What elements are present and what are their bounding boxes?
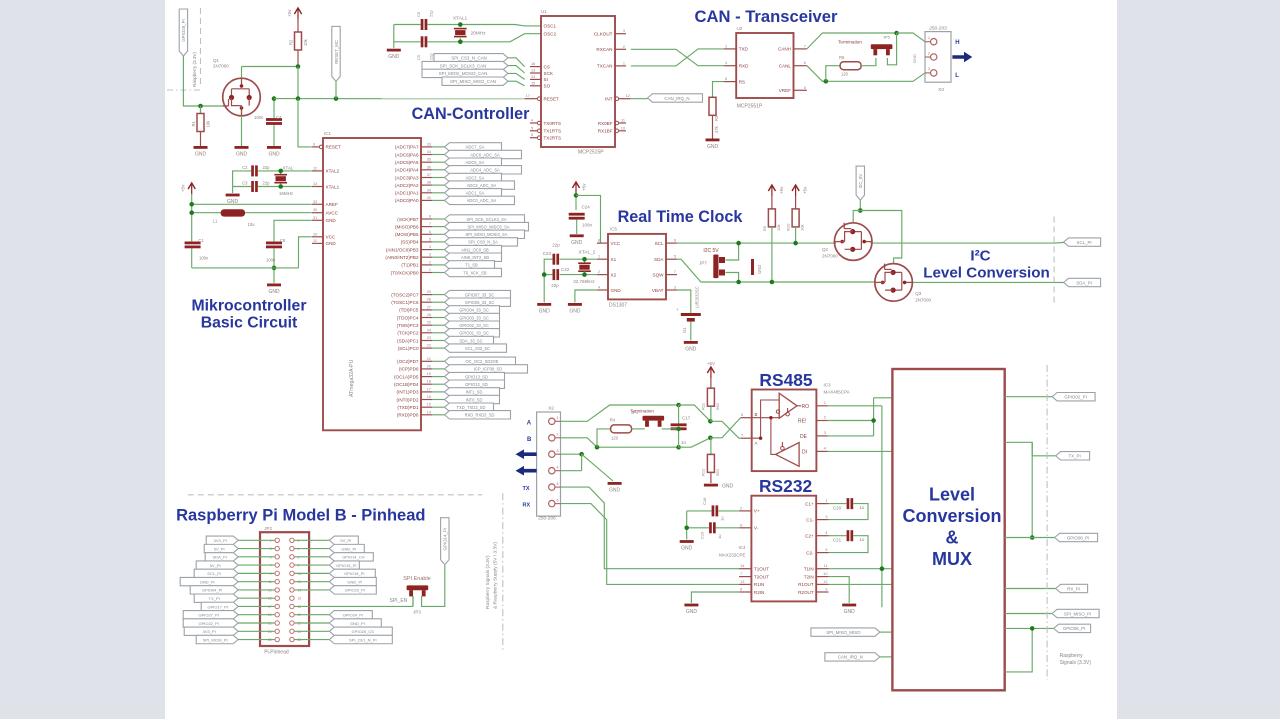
svg-text:(TDI)PC5: (TDI)PC5 (399, 308, 419, 313)
IC1 pin VCC (312, 236, 323, 238)
svg-text:+5v: +5v (181, 184, 186, 192)
svg-text:R1IN: R1IN (754, 582, 764, 587)
svg-text:T2IN: T2IN (804, 574, 814, 579)
wire from right pin (295, 581, 330, 583)
svg-text:SPI_MOSI_MOSI3_CAN: SPI_MOSI_MOSI3_CAN (439, 71, 488, 76)
svg-text:ADC7_SA: ADC7_SA (466, 145, 485, 150)
svg-text:(T1)PB1: (T1)PB1 (401, 263, 419, 268)
wire pin to net flag ADC3_SA (432, 177, 445, 179)
svg-text:5V_PI: 5V_PI (210, 563, 221, 568)
IC1 pin (OC1A)PD5 (421, 376, 432, 378)
svg-text:Q1: Q1 (213, 58, 220, 63)
svg-text:24: 24 (427, 328, 431, 332)
resistor R12 560 bias down (710, 438, 712, 455)
svg-text:RS: RS (739, 79, 745, 84)
IC1 pin RESET (312, 146, 319, 148)
wire to SO (508, 81, 525, 86)
svg-text:&: & (946, 528, 959, 548)
svg-text:XTAL_2: XTAL_2 (579, 250, 596, 256)
svg-text:120: 120 (611, 436, 619, 441)
wire to left pin (238, 564, 274, 566)
IC1 pin (MISO)PB6 (421, 226, 432, 228)
svg-text:R4: R4 (610, 418, 616, 423)
svg-text:IC4: IC4 (738, 545, 746, 550)
wire SDA diagonal and long (677, 259, 875, 282)
wire pin to net flag GPIO13_SD (432, 376, 445, 378)
svg-text:SPI_MOSI_PI: SPI_MOSI_PI (203, 637, 228, 642)
svg-text:16: 16 (298, 597, 302, 601)
net flag SPI_CS3_N_CAN (434, 54, 508, 62)
svg-text:7: 7 (804, 44, 806, 48)
IC1 pin (TOSC1)PC6 (421, 301, 432, 303)
IC1 pin (TDO)PC4 (421, 317, 432, 319)
wire SCL long (677, 242, 836, 244)
ground under R12 (704, 484, 718, 487)
svg-text:Raspberry Pi Model B - Pinhead: Raspberry Pi Model B - Pinhead (176, 507, 425, 525)
wire pin to net flag ADC4_ADC_SA (432, 169, 445, 171)
svg-text:C22: C22 (561, 267, 570, 272)
svg-text:10k: 10k (800, 225, 805, 231)
svg-text:47k: 47k (714, 125, 719, 133)
svg-text:SCL_PI: SCL_PI (1077, 240, 1092, 245)
svg-text:SPI_MOSI_MOSI3_SA: SPI_MOSI_MOSI3_SA (465, 232, 507, 237)
svg-text:C24: C24 (582, 205, 591, 210)
IC1 pin (SCL)PC0 (421, 347, 432, 349)
wire OSC1 net (394, 24, 421, 26)
svg-text:15: 15 (531, 81, 535, 85)
capacitor C20 1u loop (829, 503, 847, 505)
svg-text:MCP2515P: MCP2515P (578, 150, 604, 156)
svg-text:SPI_SCK_SCLK3_SA: SPI_SCK_SCLK3_SA (466, 217, 507, 222)
U1 pin CS (530, 66, 541, 68)
IC4 pin T1OUT (739, 568, 751, 570)
pin header JP2 box (260, 532, 309, 646)
svg-text:ADC0_ADC_SA: ADC0_ADC_SA (467, 198, 497, 203)
U1 pin SI (530, 78, 541, 80)
wire MUX to RX_PI (1005, 588, 1056, 590)
wire pin to net flag SPI_MISO_MISO3_SA (432, 226, 445, 228)
svg-text:16: 16 (531, 62, 535, 66)
svg-text:CAN_IRQ_N: CAN_IRQ_N (838, 655, 863, 660)
svg-text:GND: GND (539, 309, 551, 315)
wire pin to net flag T1_SB (432, 264, 445, 266)
svg-text:T1IN: T1IN (804, 567, 814, 572)
svg-text:C3: C3 (242, 181, 248, 186)
ground X2 pins 3-4 (608, 482, 622, 485)
svg-text:(T0/XCK)PB0: (T0/XCK)PB0 (391, 270, 419, 275)
net flag GPIO13_SD (445, 372, 505, 380)
svg-text:14: 14 (427, 410, 431, 414)
wire R1 to GND (200, 132, 202, 147)
svg-text:Q2: Q2 (822, 247, 829, 252)
svg-text:+: + (676, 307, 679, 312)
IC4 pin C1- (816, 519, 828, 521)
resistor R2 10k (297, 19, 299, 32)
svg-text:3V3_PI: 3V3_PI (214, 538, 227, 543)
svg-text:29: 29 (427, 290, 431, 294)
svg-text:2: 2 (557, 433, 559, 437)
net flag GPIO01_33_SC (445, 329, 500, 337)
ground under T2IN (842, 604, 856, 607)
svg-text:GND: GND (388, 54, 400, 60)
wire pin to net flag ADC0_ADC_SA (432, 199, 445, 201)
svg-text:4: 4 (725, 61, 727, 65)
wire GND pin to C8 column (274, 220, 312, 241)
svg-text:A: A (755, 441, 758, 446)
wire R6 to JP5 left leg (861, 58, 876, 66)
svg-text:6: 6 (531, 133, 533, 137)
net flag RXD_RXD3_SD (445, 411, 511, 419)
wire T2IN to GND (829, 577, 850, 603)
svg-text:GND: GND (686, 609, 698, 615)
svg-text:RESET_MC: RESET_MC (334, 40, 339, 64)
svg-text:SDA_PI: SDA_PI (213, 555, 227, 560)
svg-text:VCC: VCC (326, 235, 336, 240)
svg-text:GPIO15_PI: GPIO15_PI (336, 563, 356, 568)
net flag ADC6_ADC_SA (445, 150, 522, 158)
ground under R2IN (684, 604, 698, 607)
svg-text:GND: GND (722, 484, 734, 490)
power +5V RTC (572, 182, 579, 188)
svg-text:10: 10 (313, 232, 317, 236)
net flag SCL_PI (pinhead left) (194, 569, 238, 577)
svg-text:SPI Enable: SPI Enable (403, 576, 431, 582)
wire to CS (508, 58, 525, 67)
wire pin to net flag ADC1_SA (432, 192, 445, 194)
wire CANL diagonal down (807, 66, 931, 82)
svg-text:GND: GND (611, 288, 622, 293)
net flag AIN1_OC0_SB (445, 245, 502, 253)
U1 pin TX1RTS (530, 130, 537, 132)
wire C8 to bottom rail and GND (273, 248, 275, 283)
svg-text:1u: 1u (717, 535, 722, 539)
IC1 pin XTAL2 (312, 170, 323, 172)
svg-text:12: 12 (313, 166, 317, 170)
svg-text:+5v: +5v (803, 186, 808, 194)
svg-text:TXD_TXD3_SD: TXD_TXD3_SD (457, 405, 486, 410)
svg-text:SCK: SCK (544, 71, 554, 76)
net flag GPIO04_33_SC (445, 306, 500, 314)
svg-text:36: 36 (427, 165, 431, 169)
JP2 pin row 13 circles (275, 637, 279, 641)
svg-text:GPIO14_CH: GPIO14_CH (342, 555, 365, 560)
svg-text:R11: R11 (701, 402, 706, 410)
svg-text:C1+: C1+ (805, 501, 814, 506)
svg-text:VREF: VREF (779, 88, 791, 93)
net flag ADC1_SA (445, 189, 502, 197)
bottom rail wire (192, 267, 299, 269)
JP2 pin row 1 circles (275, 538, 279, 542)
svg-text:5: 5 (804, 86, 806, 90)
wire X2 pins3-4 to GND (561, 453, 582, 455)
svg-text:(ADC6)PA6: (ADC6)PA6 (395, 152, 419, 157)
wire pin to net flag SCL_033_SC (432, 347, 445, 349)
svg-text:I²C: I²C (970, 248, 990, 265)
wire pin to net flag SPI_SCK_SCLK3_SA (432, 218, 445, 220)
wire pin to net flag GPIO07_33_SC (432, 294, 445, 296)
capacitor C23 22p (553, 254, 556, 265)
wire RESET_MC flag stub (335, 81, 337, 98)
svg-text:C4: C4 (276, 115, 282, 120)
junction RESET at R2 column (296, 96, 301, 101)
svg-text:6: 6 (674, 239, 676, 243)
ground under C18/C19 (680, 540, 694, 543)
svg-text:T2OUT: T2OUT (754, 574, 769, 579)
wire MUX bottom loop (1005, 628, 1032, 672)
svg-text:38: 38 (427, 181, 431, 185)
svg-text:SPI_SCK_SCLK3_CAN: SPI_SCK_SCLK3_CAN (440, 63, 487, 68)
svg-text:21: 21 (427, 357, 431, 361)
wire to SCK (508, 66, 525, 73)
svg-text:(SCK)PB7: (SCK)PB7 (397, 217, 419, 222)
svg-text:7: 7 (740, 572, 742, 576)
U1 pin TX0RTS (530, 122, 537, 124)
svg-text:SDA_33_SC: SDA_33_SC (459, 338, 482, 343)
svg-text:GPIO25_PI: GPIO25_PI (181, 19, 186, 41)
svg-text:(AIN1/OC0)PB3: (AIN1/OC0)PB3 (386, 247, 419, 252)
wire pin to net flag AIN1_OC0_SB (432, 249, 445, 251)
svg-text:(MOSI)PB5: (MOSI)PB5 (395, 232, 419, 237)
wire pin to net flag GPIO01_33_SC (432, 332, 445, 334)
net flag SCL_033_SC (445, 344, 507, 352)
net flag SDA_PI (pinhead left) (205, 553, 238, 561)
IC5 pin X2 (597, 274, 608, 276)
IC1 pin (ADC1)PA1 (421, 192, 432, 194)
svg-text:(TOSC2)PC7: (TOSC2)PC7 (391, 292, 419, 297)
svg-text:34: 34 (427, 150, 431, 154)
svg-text:IC5: IC5 (610, 227, 618, 232)
svg-text:TXCAN: TXCAN (597, 64, 613, 69)
ground under R1 (194, 146, 208, 149)
wire termination branch up (826, 66, 840, 82)
wire I2C_5V to gates (859, 200, 861, 210)
wire pin to net flag SPI_MOSI_MOSI3_SA (432, 233, 445, 235)
IC4 pin C2+ (816, 535, 828, 537)
U1 pin SCK (530, 72, 541, 74)
svg-text:DS1307: DS1307 (609, 303, 627, 309)
svg-text:INT1_SD: INT1_SD (466, 390, 483, 395)
ground under C24 (570, 234, 584, 237)
wire MUX to SPI_MISO_PI (1005, 613, 1052, 615)
wire pin to net flag GPIO04_33_SC (432, 309, 445, 311)
svg-text:7: 7 (674, 270, 676, 274)
IC IC4 MAX232 box (751, 496, 816, 602)
U1 pin TX2RTS (530, 137, 537, 139)
wire R10 to SCL (795, 227, 797, 243)
IC1 pin AREF (312, 203, 323, 205)
wire pin to net flag INT0_SD (432, 399, 445, 401)
wire T1IN to MUX (829, 568, 893, 570)
svg-text:1: 1 (623, 61, 625, 65)
svg-text:GPIO22_PI: GPIO22_PI (198, 621, 218, 626)
wire from right pin (295, 639, 330, 641)
net flag SDA_33_SC (445, 336, 494, 344)
X3 pin 1 circle (931, 39, 937, 45)
svg-text:CAN - Transceiver: CAN - Transceiver (695, 7, 838, 26)
svg-text:2: 2 (928, 51, 930, 55)
wire B-net crossing to IC3 B (710, 418, 740, 438)
svg-text:ATmega32A-PU: ATmega32A-PU (349, 359, 355, 397)
svg-text:22p: 22p (429, 10, 434, 17)
svg-text:R1OUT: R1OUT (798, 582, 814, 587)
JP2 pin row 11 circles (275, 621, 279, 625)
svg-text:TX1RTS: TX1RTS (544, 129, 562, 134)
IC5 pin SDA (666, 258, 677, 260)
wire RESET down to IC1 (298, 99, 312, 147)
net flag SPI_MOSI_MOSI3_CAN (422, 69, 508, 77)
transistor Q3 2N7000 (875, 264, 913, 302)
svg-text:R2OUT: R2OUT (798, 590, 814, 595)
svg-text:+5v: +5v (287, 9, 292, 17)
U2 pin VREF (794, 89, 807, 91)
svg-text:R3: R3 (714, 115, 719, 121)
wire pin to net flag RXD_RXD3_SD (432, 414, 445, 416)
IC1 pin (INT0)PD2 (421, 399, 432, 401)
net flag GPIO12_SD (445, 380, 505, 388)
power +5V top (294, 8, 301, 14)
svg-text:CS: CS (544, 64, 550, 69)
ground under C8 (267, 284, 281, 287)
svg-text:(INT1)PD3: (INT1)PD3 (397, 390, 419, 395)
junction CANL termination (824, 79, 829, 84)
net flag T0_XCK_SB (445, 268, 502, 276)
IC4 pin T2IN (816, 576, 828, 578)
svg-text:SCL_PI: SCL_PI (207, 571, 221, 576)
boundary dash-dot vertical right of pinhead (502, 493, 504, 651)
wire TX to T1OUT (561, 487, 740, 569)
wire TXCAN to TXD crossing (631, 49, 724, 66)
svg-text:22p: 22p (551, 283, 559, 288)
wire from right pin (295, 548, 330, 550)
svg-text:3: 3 (928, 67, 930, 71)
svg-text:GND: GND (685, 347, 697, 353)
svg-text:(OC1A)PD5: (OC1A)PD5 (394, 374, 419, 379)
svg-text:LIR2032SC: LIR2032SC (695, 286, 700, 308)
wire pin to net flag GPIO12_SD (432, 383, 445, 385)
wire pin to net flag GPIO02_33_SC (432, 324, 445, 326)
svg-text:30: 30 (313, 208, 317, 212)
svg-text:8: 8 (598, 239, 600, 243)
IC4 pin T2OUT (739, 576, 751, 578)
IC1 pin (TXD)PD1 (421, 406, 432, 408)
wire X2 net (560, 274, 597, 276)
svg-text:GPIO13_SD: GPIO13_SD (465, 374, 488, 379)
resistor R10 10k pullup (792, 185, 799, 191)
svg-text:5V_PI: 5V_PI (214, 546, 225, 551)
dashed boundary right of I2C (1053, 216, 1055, 302)
capacitor C3 22p (251, 181, 254, 192)
wires caps to GND rail (233, 171, 252, 193)
svg-text:GND: GND (236, 152, 248, 158)
svg-text:Signals (3.3V): Signals (3.3V) (1060, 660, 1092, 666)
wire from right pin (295, 539, 330, 541)
svg-text:Raspberry: Raspberry (1060, 653, 1084, 659)
net flag 3V3_PI (pinhead left) (184, 627, 238, 635)
JP2 pin row 7 circles (275, 588, 279, 592)
svg-text:GPIO02_PI: GPIO02_PI (1064, 395, 1086, 400)
IC1 pin (SS)PB4 (421, 241, 432, 243)
IC5 pin SQW (666, 274, 677, 276)
svg-text:U1: U1 (541, 9, 547, 14)
svg-text:X2: X2 (611, 272, 617, 277)
svg-text:V-: V- (754, 526, 759, 531)
svg-text:1: 1 (429, 268, 431, 272)
wire to left pin (238, 539, 274, 541)
svg-text:VBAT: VBAT (652, 288, 664, 293)
svg-text:6: 6 (429, 230, 431, 234)
svg-text:(ADC7)PA7: (ADC7)PA7 (395, 145, 419, 150)
wire to left pin (238, 597, 274, 599)
U1 pin CLKOUT (615, 33, 626, 35)
U1 pin RX1BF (619, 130, 626, 132)
IC3 internal wires (752, 400, 801, 454)
svg-text:ADC3_SA: ADC3_SA (466, 175, 485, 180)
power +5V microcontroller (188, 183, 195, 189)
svg-text:Q3: Q3 (915, 291, 922, 296)
svg-text:1: 1 (598, 255, 600, 259)
wire pin to net flag T0_XCK_SB (432, 272, 445, 274)
wire R3 to GND (712, 115, 714, 138)
svg-text:4: 4 (557, 466, 559, 470)
svg-text:SPI_MISO_MISO3_SA: SPI_MISO_MISO3_SA (467, 224, 509, 229)
svg-text:Level: Level (929, 485, 975, 505)
svg-text:C1-: C1- (806, 517, 814, 522)
svg-text:17: 17 (427, 387, 431, 391)
svg-text:120: 120 (841, 72, 849, 77)
net flag GPIO07_33_SC (445, 290, 511, 298)
svg-text:MCP2551P: MCP2551P (737, 104, 763, 110)
svg-text:AVCC: AVCC (326, 211, 339, 216)
net flag RESET_MC vertical (332, 26, 340, 81)
svg-text:ICP_ICP38_SD: ICP_ICP38_SD (474, 367, 502, 372)
IC3 pin B stub (741, 417, 752, 419)
wire RESET net horizontal to U1 (274, 98, 525, 100)
JP2 pin row 6 circles (275, 579, 279, 583)
jumper JP4 termination (643, 416, 665, 421)
net flag GPIO22_PI (pinhead left) (183, 619, 238, 627)
svg-text:C1: C1 (198, 238, 204, 243)
svg-text:TXD: TXD (739, 47, 749, 52)
svg-text:1: 1 (825, 499, 827, 503)
net flag ADC3_SA (445, 173, 502, 181)
svg-text:R9: R9 (762, 225, 767, 231)
wire +5V down to C1 (191, 194, 193, 241)
wire VBAT to battery (677, 290, 691, 313)
svg-text:X1: X1 (611, 257, 617, 262)
IC3 pin A stub (741, 437, 752, 439)
net flag INT1_SD (445, 388, 500, 396)
capacitor C2 22p (251, 165, 254, 176)
svg-text:R2IN: R2IN (754, 590, 764, 595)
wire INT to CAN_IRQ_N flag (631, 98, 648, 100)
JP2 pin row 10 circles (275, 613, 279, 617)
svg-text:26: 26 (427, 313, 431, 317)
wire XTAL1 (258, 186, 312, 188)
JP2 pin row 2 circles (275, 546, 279, 550)
wire pin to net flag ADC2_ADC_SA (432, 184, 445, 186)
IC1 pin GND(31) (312, 219, 323, 221)
junction CANH termination (894, 31, 899, 36)
svg-text:2N7000: 2N7000 (915, 298, 931, 303)
svg-text:GND: GND (268, 152, 280, 158)
net flag ICP_ICP38_SD (445, 365, 528, 373)
IC1 pin (ADC4)PA4 (421, 169, 432, 171)
svg-text:ADC1_SA: ADC1_SA (466, 191, 485, 196)
svg-text:AIN1_OC0_SB: AIN1_OC0_SB (461, 247, 489, 252)
IC IC5 DS1307 box (608, 234, 666, 300)
net flag T1_SB (445, 261, 495, 269)
wire from right pin (295, 572, 330, 574)
